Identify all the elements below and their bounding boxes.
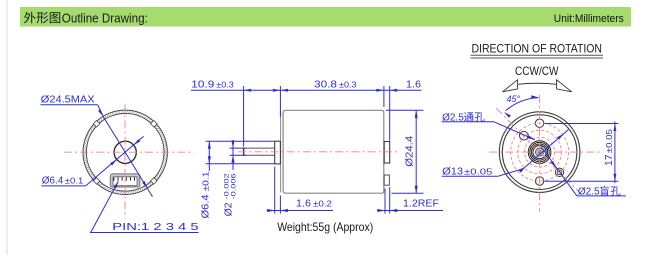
- svg-text:Weight:55g (Approx): Weight:55g (Approx): [277, 220, 373, 234]
- svg-text:±0.1: ±0.1: [201, 171, 210, 192]
- svg-text:±0.1: ±0.1: [65, 177, 84, 186]
- rotation direction double arrow: [518, 83, 557, 84]
- rear view centerlines: [489, 151, 602, 153]
- left view: motor front view centerlines: [64, 151, 194, 153]
- bottom mounting hole: [535, 177, 543, 185]
- svg-text:Ø6.4: Ø6.4: [42, 176, 64, 187]
- svg-text:Ø24.4: Ø24.4: [404, 135, 415, 166]
- svg-text:Ø6.4: Ø6.4: [200, 194, 211, 218]
- PIN leader: [91, 181, 119, 232]
- dimension 17±0.05 hole spacing: [545, 123, 619, 125]
- dimension Ø6.4 boss height: [206, 140, 275, 142]
- center shaft boss circle: [114, 141, 136, 163]
- top mounting hole: [535, 119, 543, 127]
- svg-text:Unit:Millimeters: Unit:Millimeters: [554, 13, 624, 25]
- top dimension line 10.9 / 30.8 / 1.6: [191, 89, 422, 91]
- svg-text:±0.05: ±0.05: [464, 168, 493, 177]
- dimension 1.6±0.2 boss protrusion: [274, 167, 276, 214]
- 45 deg diagonal centerline: [496, 108, 583, 196]
- leader Ø6.4 diameter line: [86, 136, 144, 186]
- rear housing circles: [499, 112, 580, 193]
- motor housing outer circle (knurled ring): [83, 110, 168, 195]
- motor body side outline: [280, 111, 282, 193]
- dimension Ø2 shaft: [230, 147, 247, 149]
- svg-text:CCW/CW: CCW/CW: [515, 64, 559, 78]
- svg-text:Ø24.5MAX: Ø24.5MAX: [41, 95, 95, 106]
- svg-text:Ø2: Ø2: [224, 202, 235, 216]
- extension lines top dims: [243, 86, 245, 147]
- svg-text:DIRECTION OF ROTATION: DIRECTION OF ROTATION: [472, 44, 603, 56]
- header title 外形图Outline Drawing:: [24, 12, 36, 24]
- svg-text:-0.002: -0.002: [224, 173, 231, 199]
- front bearing boss: [275, 141, 281, 164]
- svg-text:Outline Drawing:: Outline Drawing:: [62, 11, 148, 25]
- dimension 1.2REF rear tab: [384, 189, 386, 214]
- svg-text:-0.006: -0.006: [231, 173, 238, 199]
- shaft hub rings: [528, 141, 551, 164]
- middle view: side view centerline: [238, 151, 397, 153]
- Ø2.5 blind hole (lower-right): [555, 168, 563, 176]
- svg-text:1.2REF: 1.2REF: [403, 198, 439, 209]
- 5-pin connector: [110, 174, 140, 187]
- red bolt/reference circles: [511, 123, 569, 181]
- page left border: [6, 0, 8, 255]
- svg-text:30.8: 30.8: [314, 80, 338, 91]
- svg-text:±0.3: ±0.3: [216, 81, 234, 90]
- leader blind hole: [541, 147, 577, 196]
- leader Ø24.5MAX diameter line: [98, 105, 104, 117]
- header green title bar: [20, 7, 631, 27]
- svg-text:±0.3: ±0.3: [339, 81, 357, 90]
- svg-text:1.6: 1.6: [296, 199, 311, 210]
- svg-text:±0.05: ±0.05: [605, 129, 614, 154]
- svg-text:1.6: 1.6: [406, 80, 421, 91]
- svg-text:PIN:1 2 3 4 5: PIN:1 2 3 4 5: [112, 221, 199, 233]
- leader through hole: [494, 122, 535, 140]
- housing notches (4 squares on ring): [151, 120, 158, 127]
- svg-text:±0.2: ±0.2: [313, 200, 333, 209]
- motor shaft: [244, 147, 275, 149]
- Ø2.5 through hole (upper-left): [520, 131, 529, 140]
- rear bearing boss: [384, 142, 390, 164]
- svg-text:10.9: 10.9: [191, 80, 215, 91]
- dimension Ø24.4 body diameter: [386, 109, 424, 111]
- leader Ø13 bolt circle: [498, 169, 523, 177]
- svg-text:17: 17: [604, 154, 615, 166]
- rear terminal tab: [384, 175, 389, 185]
